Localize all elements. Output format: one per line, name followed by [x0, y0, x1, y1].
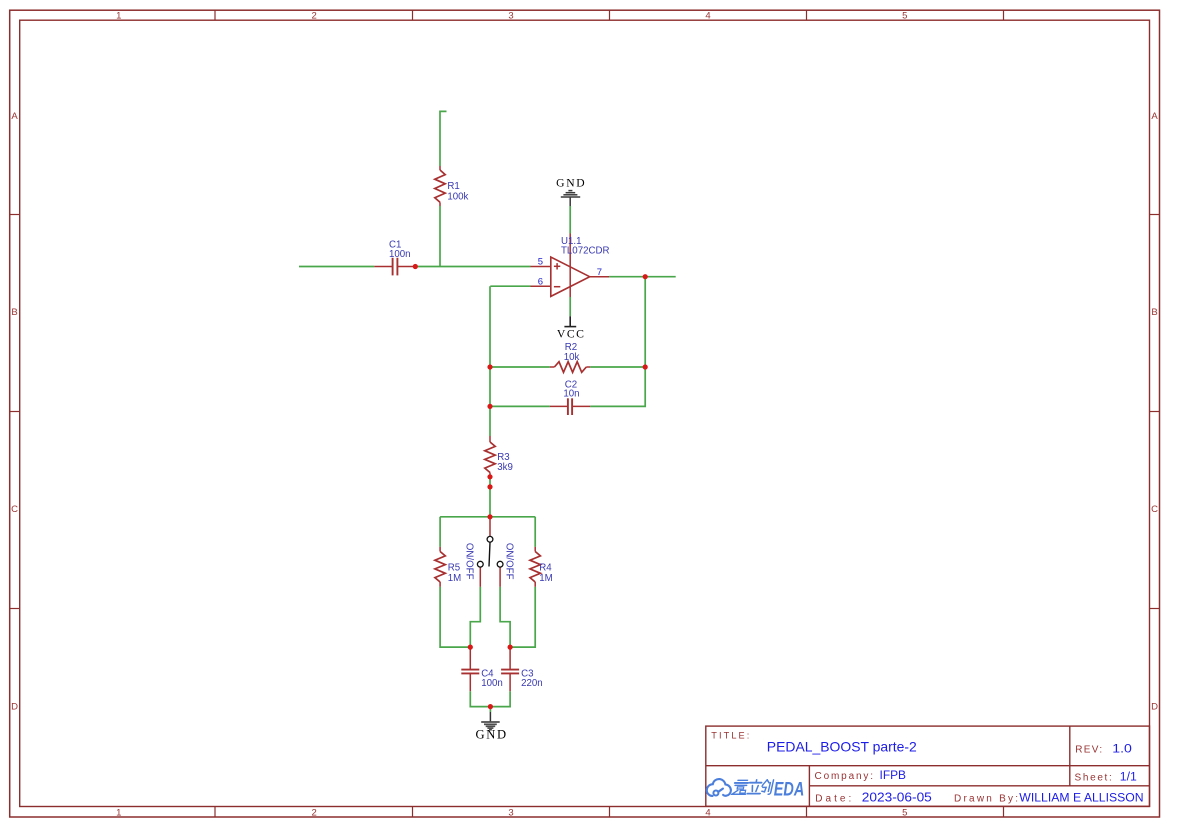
ground symbol GND bottom — [481, 712, 500, 730]
svg-text:VCC: VCC — [557, 327, 584, 340]
svg-text:D: D — [1151, 701, 1158, 712]
svg-text:D: D — [11, 701, 18, 712]
label C2 10n — [563, 379, 579, 399]
label R5 1M — [448, 563, 461, 585]
svg-text:1.0: 1.0 — [1112, 741, 1132, 755]
label R2 10k — [564, 342, 580, 363]
label R3 3k9 — [497, 452, 513, 473]
wire C1 to op-amp input — [415, 266, 530, 268]
frame row ticks right — [1150, 215, 1160, 609]
svg-text:5: 5 — [902, 807, 907, 818]
capacitor C1 — [374, 258, 415, 276]
svg-text:R2: R2 — [565, 342, 577, 353]
resistor R2 — [550, 362, 590, 373]
node R3 bottom b — [487, 484, 492, 489]
label C3 220n — [521, 668, 543, 689]
svg-text:ON/OFF: ON/OFF — [464, 543, 475, 580]
wire C2 left — [490, 405, 550, 407]
svg-text:2: 2 — [312, 807, 317, 818]
wire C3 bottom — [490, 691, 510, 706]
svg-text:3: 3 — [508, 11, 513, 22]
wire R5 bottom to C4 node — [440, 587, 470, 647]
wire bottom node to GND stub — [489, 707, 491, 712]
capacitor C4 — [461, 647, 479, 691]
svg-text:TITLE:: TITLE: — [711, 730, 749, 740]
node C3 top — [508, 645, 513, 650]
EasyEDA logo glyph jia — [731, 780, 748, 794]
svg-text:Drawn By:: Drawn By: — [954, 794, 1018, 805]
svg-text:100n: 100n — [481, 678, 503, 689]
svg-text:R4: R4 — [539, 563, 552, 574]
svg-text:A: A — [11, 111, 18, 122]
power symbol GND top — [561, 191, 580, 206]
svg-text:220n: 220n — [521, 678, 543, 689]
svg-text:1M: 1M — [539, 573, 552, 584]
node switch common — [487, 514, 492, 519]
svg-text:4: 4 — [705, 11, 710, 22]
svg-text:5: 5 — [902, 11, 907, 22]
svg-text:3k9: 3k9 — [497, 462, 513, 473]
svg-text:1: 1 — [116, 807, 121, 818]
svg-text:B: B — [11, 307, 17, 318]
node C1 output junction — [413, 264, 418, 269]
svg-text:2: 2 — [312, 11, 317, 22]
resistor R4 — [530, 547, 540, 587]
svg-text:10k: 10k — [564, 352, 580, 363]
svg-text:3: 3 — [508, 807, 513, 818]
svg-text:EDA: EDA — [774, 779, 805, 801]
svg-text:1M: 1M — [448, 573, 461, 584]
frame row labels left — [11, 111, 18, 712]
frame column labels top — [116, 11, 907, 22]
svg-text:7: 7 — [597, 267, 602, 278]
svg-text:REV:: REV: — [1075, 744, 1102, 755]
svg-text:6: 6 — [538, 276, 543, 287]
wire switch node horizontal — [440, 516, 535, 518]
svg-text:TL072CDR: TL072CDR — [561, 246, 609, 257]
wire R2 left — [490, 366, 550, 368]
frame column ticks bottom — [215, 807, 1004, 818]
wire op-amp pin5 lead — [490, 285, 530, 287]
resistor R3 — [485, 436, 495, 477]
node op-amp output junction — [643, 274, 648, 279]
svg-text:A: A — [1151, 111, 1158, 122]
svg-text:4: 4 — [705, 807, 710, 818]
svg-text:Date:: Date: — [815, 794, 851, 805]
frame row ticks left — [10, 215, 20, 609]
EasyEDA logo cloud tick — [718, 789, 723, 792]
svg-text:Sheet:: Sheet: — [1075, 772, 1112, 783]
wire R4 bottom to C3 node — [510, 587, 535, 647]
wire output down to feedback right — [590, 277, 645, 407]
resistor R5 — [435, 547, 445, 587]
svg-text:5: 5 — [538, 256, 543, 267]
svg-text:1: 1 — [116, 11, 121, 22]
wire to R5 top — [439, 517, 441, 547]
EasyEDA logo glyph li — [747, 780, 762, 794]
frame column ticks top — [215, 10, 1004, 20]
svg-text:R5: R5 — [448, 563, 460, 574]
svg-text:1/1: 1/1 — [1120, 769, 1137, 783]
svg-text:10n: 10n — [563, 389, 579, 400]
wire inverting input down to feedback — [489, 286, 491, 436]
svg-text:2023-06-05: 2023-06-05 — [862, 791, 932, 805]
svg-text:100n: 100n — [389, 249, 411, 260]
label C1 100n — [389, 239, 411, 259]
frame column labels bottom — [116, 807, 907, 818]
svg-text:GND: GND — [556, 177, 585, 190]
wire R2 right — [590, 366, 645, 368]
label U1.1 TL072CDR — [561, 236, 609, 257]
wire op-amp bottom to VCC — [569, 297, 571, 316]
node C4 top — [468, 645, 473, 650]
wire input net left segment — [299, 266, 374, 268]
wire R3 bottom to switch node — [489, 477, 491, 517]
svg-text:PEDAL_BOOST parte-2: PEDAL_BOOST parte-2 — [767, 739, 917, 755]
node ground — [488, 704, 493, 709]
wire output net — [609, 276, 676, 278]
resistor R1 — [435, 166, 445, 206]
frame row labels right — [1151, 111, 1158, 712]
wire switch throw right down — [500, 587, 510, 647]
power symbol VCC — [564, 316, 576, 326]
op-amp U1.1 TL072CDR — [531, 234, 610, 298]
node feedback left C2 — [487, 404, 492, 409]
capacitor C3 — [501, 647, 519, 691]
wire to R4 top — [534, 517, 536, 547]
title block frame — [706, 726, 1150, 806]
EasyEDA logo cloud inner circle — [713, 791, 718, 796]
wire GND to op-amp top — [569, 206, 571, 234]
svg-text:C: C — [11, 504, 18, 515]
svg-text:R1: R1 — [447, 181, 459, 192]
svg-text:B: B — [1151, 307, 1157, 318]
wire C4 bottom — [470, 691, 490, 706]
switch SPDT ON/OFF — [477, 517, 503, 587]
svg-text:ON/OFF: ON/OFF — [503, 543, 514, 580]
svg-text:C: C — [1151, 504, 1158, 515]
capacitor C2 — [550, 398, 590, 415]
svg-text:WILLIAM E ALLISSON: WILLIAM E ALLISSON — [1019, 791, 1143, 805]
node R3 bottom a — [487, 474, 492, 479]
svg-text:100k: 100k — [447, 192, 468, 203]
svg-text:GND: GND — [476, 728, 507, 742]
node feedback left R2 — [487, 364, 492, 369]
EasyEDA logo glyph chuang — [761, 780, 774, 794]
wire R1 top with stub — [440, 111, 447, 166]
wire switch throw left down — [470, 587, 480, 647]
EasyEDA logo cloud — [707, 779, 731, 796]
svg-text:IFPB: IFPB — [880, 768, 907, 782]
label R4 1M — [539, 563, 552, 585]
node feedback right R2 — [643, 364, 648, 369]
label C4 100n — [481, 668, 503, 689]
label R1 100k — [447, 181, 468, 203]
svg-text:Company:: Company: — [815, 771, 874, 782]
wire R1 bottom to input net — [439, 206, 441, 267]
